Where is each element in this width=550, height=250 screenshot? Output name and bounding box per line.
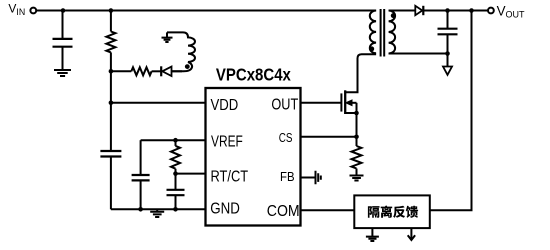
wire: top rail VIN to transformer primary: [37, 10, 377, 12]
ground: feedback earth: [371, 228, 373, 237]
ground: output return (open triangle): [443, 67, 452, 75]
svg-text:RT/CT: RT/CT: [211, 168, 249, 185]
wire: output rail: [423, 10, 488, 12]
resistor: startup resistor: [110, 11, 112, 32]
ground: sense resistor earth: [350, 176, 364, 181]
wire: CS pin: [301, 136, 357, 138]
wire: VOUT to isolation feedback: [430, 11, 472, 211]
capacitor: VDD decoupling cap: [100, 151, 121, 157]
transistor Q1: power MOSFET gate bar: [340, 93, 342, 111]
junction: startup resistor tap: [109, 8, 114, 13]
capacitor: input bulk cap: [62, 11, 64, 71]
wire: COM pin: [301, 209, 355, 211]
junction: source node: [354, 111, 359, 116]
wire: drain to transformer primary: [345, 54, 376, 92]
wire: RT/CT pin: [176, 173, 206, 175]
wire: ground bus to GND pin: [111, 208, 206, 210]
junction: VDD pin tap: [109, 101, 114, 106]
svg-text:OUT: OUT: [271, 96, 298, 113]
transformer aux winding: [167, 32, 195, 71]
node VOUT terminal: [488, 8, 494, 14]
svg-text:VDD: VDD: [211, 97, 239, 114]
junction: output cap tap: [445, 8, 450, 13]
svg-text:FB: FB: [280, 170, 295, 185]
transformer T1: core: [381, 9, 385, 57]
svg-text:CS: CS: [279, 132, 293, 145]
transistor Q1: body arrow: [350, 102, 357, 104]
junction: feedback tap: [469, 8, 474, 13]
ground: signal ground on GND bus: [156, 209, 158, 212]
svg-text:VREF: VREF: [211, 132, 243, 150]
transistor Q1: channel bar: [344, 90, 346, 114]
transistor Q1: source stub: [345, 112, 357, 114]
transformer T1: secondary winding: [389, 11, 396, 54]
junction: CS node: [354, 135, 359, 140]
resistor: VDD series resistor: [131, 67, 151, 75]
op-amp U1: PWM controller VPCx8C4x: [206, 88, 301, 226]
wire: VDD pin: [111, 102, 206, 104]
ground: aux winding earth: [166, 32, 168, 37]
polarity dot: aux winding: [185, 64, 190, 69]
capacitor: output cap: [447, 11, 449, 29]
resistor: RT timing resistor: [173, 138, 178, 143]
diode: VDD rectifier diode (cathode left): [152, 70, 162, 72]
node VIN terminal: [30, 8, 36, 14]
resistor: current sense resistor: [356, 137, 358, 146]
wire: source to CS node: [356, 103, 358, 137]
capacitor: CT timing cap: [175, 174, 177, 190]
svg-text:COM: COM: [267, 203, 300, 220]
wire: aux branch: [111, 70, 131, 72]
wire: VDD vertical rail: [110, 71, 112, 151]
ground: input cap earth: [54, 70, 71, 76]
polarity dot: primary: [369, 46, 374, 51]
polarity dot: secondary: [391, 13, 396, 18]
wire: OUT pin to gate: [301, 102, 342, 104]
transformer T1: primary winding: [370, 11, 376, 54]
ground: FB grounded (rotated earth): [316, 171, 321, 184]
svg-text:GND: GND: [210, 201, 240, 218]
wire: VREF pin: [141, 139, 206, 141]
wire: secondary bottom lead: [389, 53, 448, 55]
svg-text:VPCx8C4x: VPCx8C4x: [216, 65, 291, 84]
wire: FB pin: [301, 177, 316, 179]
junction: secondary return node: [445, 51, 450, 56]
diode: output rectifier: [415, 6, 422, 15]
junction: aux branch node: [109, 69, 114, 74]
capacitor: VREF bypass cap: [140, 140, 142, 175]
label: 隔离反馈 text: [368, 206, 418, 218]
junction: input cap tap: [61, 8, 66, 13]
block: isolation feedback (隔离反馈): [354, 195, 430, 228]
ground: feedback return arrow: [410, 228, 412, 239]
wire: secondary top lead: [389, 10, 416, 12]
junction: RT/CT node: [173, 171, 178, 176]
